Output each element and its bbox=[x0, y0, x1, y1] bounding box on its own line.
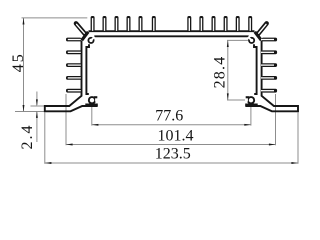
svg-text:77.6: 77.6 bbox=[155, 108, 183, 125]
svg-text:28.4: 28.4 bbox=[212, 56, 229, 89]
svg-text:2.4: 2.4 bbox=[19, 124, 36, 150]
svg-text:101.4: 101.4 bbox=[158, 128, 194, 145]
svg-text:45: 45 bbox=[10, 52, 27, 72]
svg-text:123.5: 123.5 bbox=[155, 146, 191, 163]
